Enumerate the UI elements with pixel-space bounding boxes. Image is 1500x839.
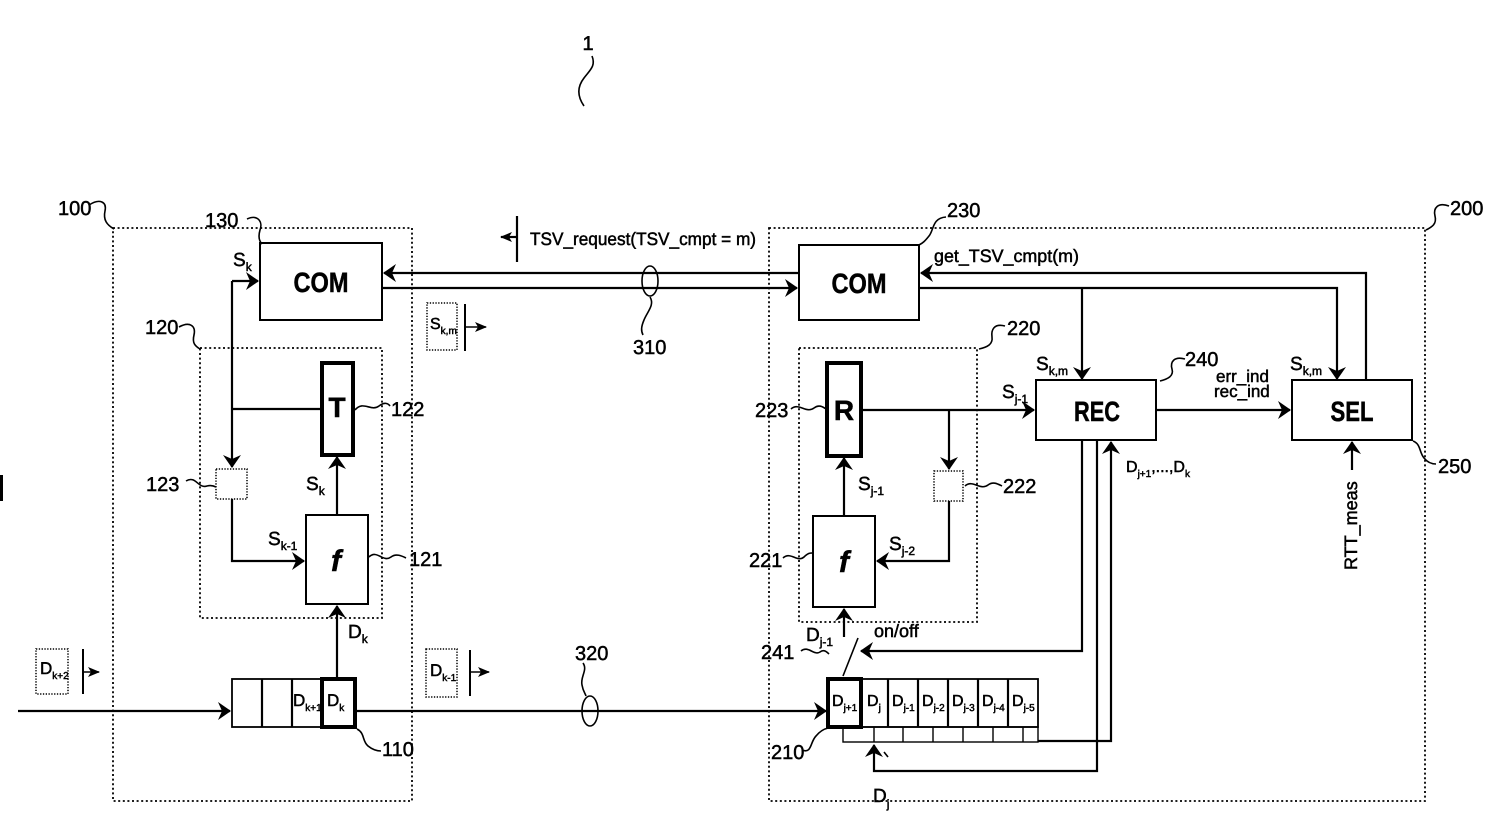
station box 100 (dotted) [113,228,412,801]
svg-text:1: 1 [582,33,593,55]
svg-text:Dj: Dj [867,693,881,714]
buffer 110 cell D_k (thick) [322,679,355,727]
svg-text:Dj-5: Dj-5 [1012,693,1035,714]
wire into f bottom (D_j-1) [843,609,845,637]
lead line 130 [247,217,262,244]
wire R to REC [861,409,1034,411]
svg-text:240: 240 [1185,349,1218,371]
svg-text:121: 121 [409,549,442,571]
svg-text:Sk-1: Sk-1 [268,529,298,553]
svg-text:230: 230 [947,200,980,222]
svg-text:Dj-1: Dj-1 [892,693,915,714]
svg-text:f: f [839,546,852,579]
lead line 223 [791,406,826,410]
box 222 [934,471,963,501]
box 123 [216,469,247,499]
svg-text:Sj-1: Sj-1 [858,474,884,498]
wire branch down to box 222 [948,410,950,469]
lead line 240 [1160,358,1185,381]
wire TSV_request bus lower (into COM 230) [382,287,797,289]
wire horizontal to T [232,408,321,410]
wire read row to REC (D_j+1..D_k) [1038,442,1111,741]
svg-text:Dj: Dj [873,786,889,811]
annotation arrow TSV_request [516,216,518,262]
wire f to R (S_j-1) [843,458,845,516]
svg-text:Dj-2: Dj-2 [922,693,945,714]
block T 122 [322,363,353,455]
wire S_k,m distribution from COM 230 [919,288,1337,379]
buffer 210 cell D_j+1 (thick) [828,679,861,727]
block COM 130 [260,243,382,320]
lead line 222 [965,483,1002,487]
wire branch into REC top [1081,288,1083,379]
lead line 123 [186,479,216,487]
block REC 240 [1036,380,1156,440]
wire data in (left) [18,710,230,712]
lead line 122 [355,403,390,410]
inner box 220 (dotted) [799,348,977,622]
svg-text:rec_ind: rec_ind [1214,382,1270,401]
svg-text:221: 221 [749,550,782,572]
svg-text:TSV_request(TSV_cmpt = m): TSV_request(TSV_cmpt = m) [530,229,756,249]
wire f to T (S_k) [336,457,338,515]
buffer 110 [232,679,355,727]
wire D_k from buffer into f [336,606,338,677]
svg-text:get_TSV_cmpt(m): get_TSV_cmpt(m) [934,246,1079,266]
wire RTT_meas into SEL [1351,442,1353,470]
lead line 110 [357,729,381,751]
svg-text:Sj-2: Sj-2 [889,534,915,558]
lead line 250 [1413,441,1436,464]
svg-text:110: 110 [382,739,414,761]
svg-text:Dk: Dk [348,622,369,646]
svg-text:Sk: Sk [306,474,326,498]
svg-text:Dj+1: Dj+1 [832,693,858,714]
svg-text:120: 120 [145,317,178,339]
svg-text:100: 100 [58,198,91,220]
lead line for 1 [579,56,594,106]
edge mark left [0,475,3,501]
lead line 100 [89,201,114,229]
buffer 210 read row [843,727,1038,742]
svg-text:Sk,m: Sk,m [430,316,457,337]
buffer 210 [828,679,1038,727]
wire from 222 to f (S_j-2) [877,501,949,561]
svg-text:f: f [331,545,344,578]
svg-text:Dk+1: Dk+1 [293,691,322,714]
svg-text:Sj-1: Sj-1 [1002,382,1028,406]
svg-text:123: 123 [146,474,179,496]
switch blade 241 [843,638,858,676]
inner box 120 (dotted) [200,348,382,618]
svg-text:RTT_meas: RTT_meas [1341,481,1361,570]
svg-text:320: 320 [575,643,608,665]
wire data link 320 [355,710,826,712]
svg-text:223: 223 [755,400,788,422]
wire from 123 to f [232,499,304,561]
lead line 121 [369,554,406,558]
station box 200 (dotted) [769,228,1425,801]
svg-text:R: R [834,395,854,426]
block R 223 [827,363,861,456]
lead line 210 [802,728,828,751]
lead line 320 [582,663,586,696]
svg-text:241: 241 [761,642,794,664]
svg-text:Dj-3: Dj-3 [952,693,975,714]
svg-text:210: 210 [771,742,804,764]
legend box S_k,m [427,303,457,350]
svg-text:130: 130 [205,210,238,232]
wire get_TSV upper (into COM 230 right) [921,273,1366,380]
svg-text:T: T [328,392,345,423]
legend box D_k-1 [426,649,457,697]
lead line 220 [979,325,1005,349]
legend box D_k+2 [36,649,68,694]
svg-text:310: 310 [633,337,666,359]
lead line 241 [801,649,829,654]
wire on/off control from REC [861,440,1082,651]
svg-text:222: 222 [1003,476,1036,498]
wire REC to SEL [1156,409,1290,411]
svg-text:Sk,m: Sk,m [1036,354,1068,378]
lead line 310 [642,297,652,335]
ellipse 320 on link [582,696,598,726]
svg-text:Dk: Dk [327,691,345,714]
svg-text:Dk-1: Dk-1 [430,661,457,684]
lead line 221 [783,553,812,559]
wire vertical from stub down to box 123 [231,281,233,467]
lead line 200 [1426,205,1449,230]
svg-text:Sk,m: Sk,m [1290,354,1322,378]
wire stub into COM 130 [232,280,258,282]
svg-text:Dk+2: Dk+2 [40,659,69,682]
block SEL 250 [1292,380,1412,440]
svg-text:220: 220 [1007,318,1040,340]
svg-text:REC: REC [1074,396,1120,427]
wire TSV_request bus upper (into COM 130) [384,272,799,274]
svg-text:COM: COM [294,267,349,298]
svg-text:200: 200 [1450,198,1483,220]
block f 221 [813,516,875,607]
svg-text:Sk: Sk [233,250,253,274]
svg-text:Dj-4: Dj-4 [982,693,1005,714]
ellipse 310 on bus [642,266,658,296]
svg-text:250: 250 [1438,456,1471,478]
svg-text:SEL: SEL [1331,396,1374,427]
lead line 230 [919,217,946,245]
block COM 230 [799,245,919,320]
svg-text:Dj-1: Dj-1 [806,625,833,649]
svg-text:Dj+1,...,Dk: Dj+1,...,Dk [1126,459,1191,480]
svg-text:COM: COM [832,268,887,299]
lead line 120 [179,324,200,349]
block f 121 [306,515,368,604]
svg-text:on/off: on/off [874,621,920,641]
wire REC to read cursor [874,440,1097,771]
small tick near read arrow [884,752,888,757]
svg-text:122: 122 [391,399,424,421]
